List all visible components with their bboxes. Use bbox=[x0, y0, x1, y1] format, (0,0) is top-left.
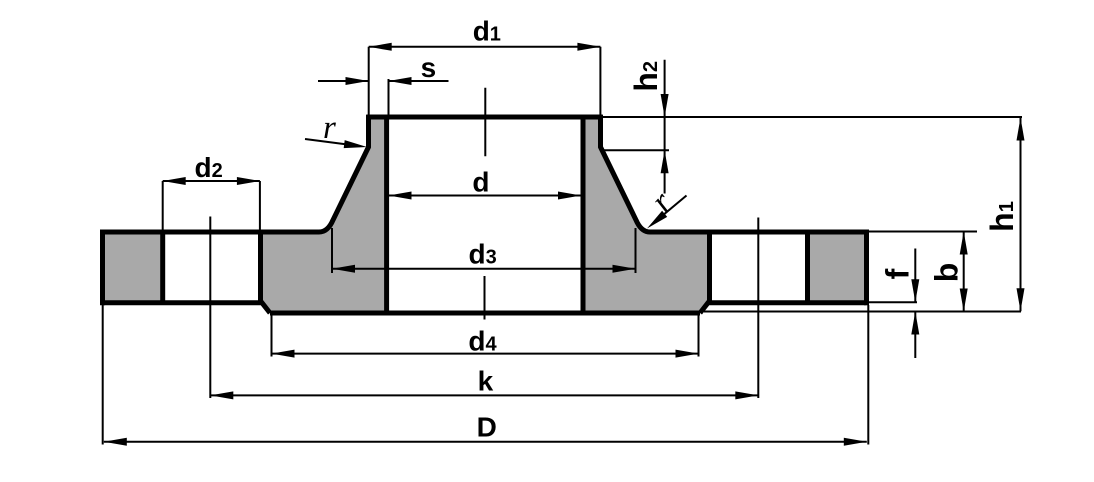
svg-text:k: k bbox=[478, 366, 494, 397]
slope start extension line for h2 bbox=[603, 149, 669, 151]
dimension D line bbox=[103, 305, 869, 446]
flange left edge bbox=[100, 230, 105, 306]
flange right edge bbox=[864, 230, 869, 306]
bolt hole left center line bbox=[209, 217, 211, 399]
b top extension line bbox=[869, 231, 978, 233]
flange bottom edge right and raised-face step bbox=[700, 303, 867, 313]
bore right wall bbox=[581, 115, 586, 315]
svg-text:D: D bbox=[477, 411, 497, 442]
svg-text:s: s bbox=[421, 52, 437, 83]
dimension d1 line bbox=[369, 43, 601, 115]
dimension f line bbox=[911, 249, 919, 359]
dimension k line bbox=[210, 391, 758, 399]
dimension d line bbox=[389, 192, 582, 200]
dimension d2 line bbox=[163, 177, 260, 231]
flange center-left gray section with hub and raised face bbox=[261, 115, 388, 313]
neck left outer wall and left flange top edge bbox=[103, 115, 369, 232]
svg-text:b: b bbox=[929, 263, 965, 283]
svg-text:r: r bbox=[323, 110, 336, 146]
raised face bottom edge bbox=[270, 311, 700, 316]
bore left wall bbox=[384, 115, 389, 315]
dimension h1 line bbox=[1017, 118, 1025, 312]
bolt hole right, left edge bbox=[707, 231, 712, 304]
flange center-right gray section with hub and raised face bbox=[583, 115, 710, 313]
bore center line upper segment bbox=[484, 88, 486, 157]
flange right gray section bbox=[808, 231, 867, 303]
bolt hole left, left edge bbox=[160, 231, 165, 304]
bolt hole right center line bbox=[757, 218, 759, 399]
raised face bottom extension line bbox=[704, 311, 1021, 313]
svg-text:d: d bbox=[472, 167, 489, 198]
bore center line lower segment bbox=[484, 276, 486, 320]
bolt hole left, right edge bbox=[258, 231, 263, 304]
flange bottom edge left and raised-face step bbox=[103, 303, 271, 313]
neck right outer wall and right flange top edge bbox=[601, 115, 867, 232]
leader r left bbox=[305, 139, 367, 148]
dimension d3 line bbox=[332, 228, 636, 273]
leader r right bbox=[647, 196, 687, 229]
flange left gray section bbox=[103, 231, 163, 303]
neck top extension line to h1 bbox=[603, 116, 1022, 118]
svg-text:f: f bbox=[880, 268, 916, 279]
neck top edge bbox=[366, 115, 603, 120]
bolt hole right, right edge bbox=[805, 231, 810, 304]
dimension h2 line bbox=[661, 60, 669, 194]
dimension b line bbox=[960, 232, 968, 312]
dimension d4 line bbox=[272, 313, 699, 358]
f top extension line bbox=[869, 301, 918, 303]
dimension s line bbox=[318, 77, 449, 115]
